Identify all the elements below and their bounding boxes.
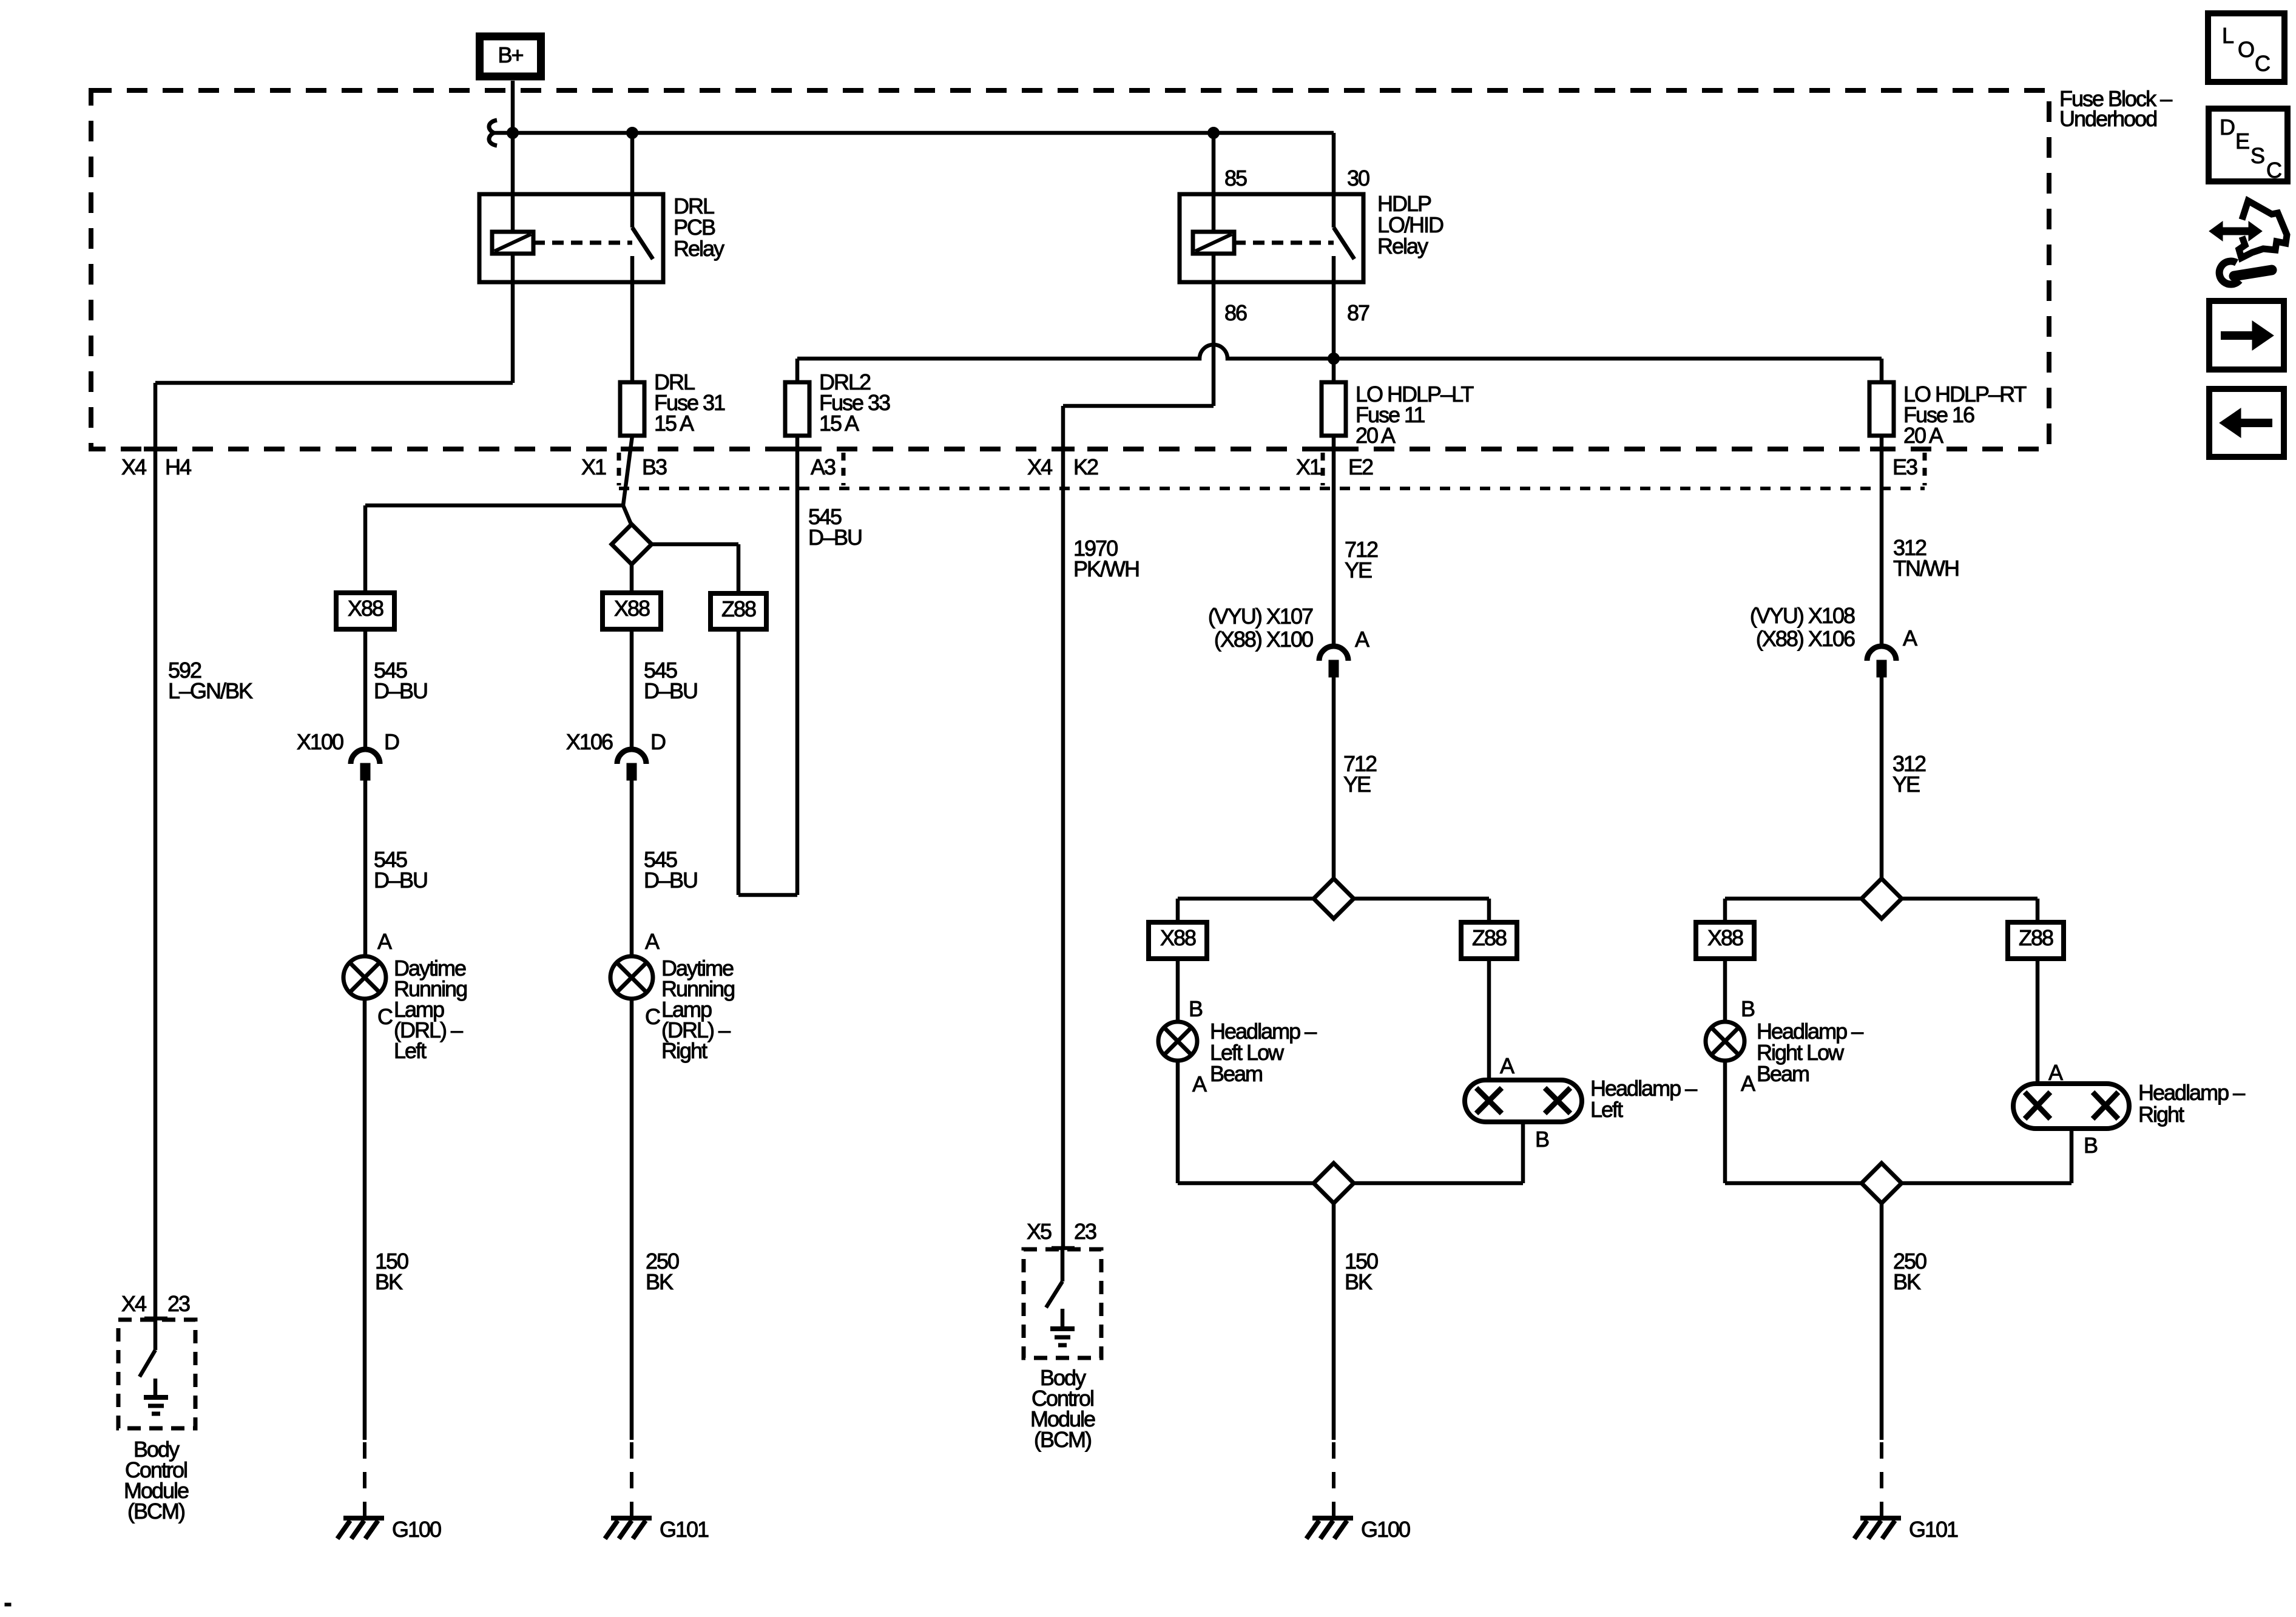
svg-text:C: C xyxy=(2255,51,2270,76)
svg-text:E3: E3 xyxy=(1893,454,1917,479)
svg-text:B3: B3 xyxy=(642,454,667,479)
svg-text:Z88: Z88 xyxy=(721,596,756,621)
svg-text:B+: B+ xyxy=(498,42,523,67)
svg-text:20 A: 20 A xyxy=(1903,423,1943,448)
svg-text:A: A xyxy=(1500,1053,1514,1078)
svg-text:YE: YE xyxy=(1345,558,1372,582)
svg-text:D–BU: D–BU xyxy=(374,868,427,893)
svg-text:B: B xyxy=(1741,996,1755,1021)
svg-text:X88: X88 xyxy=(1160,925,1196,950)
svg-text:D–BU: D–BU xyxy=(644,678,697,703)
svg-text:X4: X4 xyxy=(1027,454,1052,479)
svg-text:(BCM): (BCM) xyxy=(127,1499,184,1524)
svg-text:X88: X88 xyxy=(1707,925,1743,950)
svg-text:S: S xyxy=(2250,143,2264,168)
svg-text:87: 87 xyxy=(1347,300,1369,325)
svg-text:Z88: Z88 xyxy=(2019,925,2053,950)
svg-text:PK/WH: PK/WH xyxy=(1073,556,1139,581)
svg-text:B: B xyxy=(1535,1127,1549,1152)
svg-text:A: A xyxy=(1355,627,1369,652)
svg-text:Right: Right xyxy=(2138,1102,2184,1127)
svg-text:Relay: Relay xyxy=(674,236,724,261)
svg-text:Headlamp –: Headlamp – xyxy=(2138,1080,2245,1105)
svg-text:C: C xyxy=(2266,158,2281,183)
svg-text:E2: E2 xyxy=(1348,454,1373,479)
svg-text:(VYU) X107: (VYU) X107 xyxy=(1208,604,1313,629)
svg-text:(X88) X106: (X88) X106 xyxy=(1756,626,1855,651)
svg-text:Left: Left xyxy=(1590,1097,1623,1122)
svg-text:D: D xyxy=(384,729,399,754)
svg-text:X1: X1 xyxy=(581,454,606,479)
svg-text:L: L xyxy=(2222,23,2234,48)
svg-text:YE: YE xyxy=(1893,772,1920,797)
svg-text:C: C xyxy=(377,1004,393,1029)
svg-text:(VYU) X108: (VYU) X108 xyxy=(1750,603,1855,628)
svg-text:Z88: Z88 xyxy=(1472,925,1507,950)
svg-text:D–BU: D–BU xyxy=(808,525,862,550)
svg-text:O: O xyxy=(2238,37,2254,62)
svg-text:BK: BK xyxy=(375,1269,403,1294)
svg-text:Right: Right xyxy=(661,1038,707,1063)
svg-text:D: D xyxy=(2220,115,2235,140)
svg-text:A: A xyxy=(377,929,392,954)
svg-text:G100: G100 xyxy=(392,1517,441,1542)
svg-text:E: E xyxy=(2235,129,2249,154)
svg-text:(BCM): (BCM) xyxy=(1034,1427,1091,1452)
svg-text:A3: A3 xyxy=(811,454,836,479)
svg-text:Relay: Relay xyxy=(1377,234,1428,258)
svg-text:YE: YE xyxy=(1343,772,1371,797)
svg-text:X88: X88 xyxy=(614,596,650,621)
svg-text:(X88) X100: (X88) X100 xyxy=(1214,627,1313,652)
svg-text:G101: G101 xyxy=(1909,1517,1958,1542)
svg-text:B: B xyxy=(1189,996,1203,1021)
svg-text:30: 30 xyxy=(1347,166,1369,191)
svg-text:K2: K2 xyxy=(1073,454,1098,479)
svg-text:X5: X5 xyxy=(1027,1219,1052,1244)
svg-text:L–GN/BK: L–GN/BK xyxy=(168,678,253,703)
svg-text:23: 23 xyxy=(167,1291,190,1316)
svg-text:G100: G100 xyxy=(1361,1517,1410,1542)
svg-text:X88: X88 xyxy=(348,596,383,621)
svg-text:BK: BK xyxy=(646,1269,674,1294)
svg-text:BK: BK xyxy=(1345,1269,1373,1294)
svg-text:B: B xyxy=(2084,1133,2098,1158)
svg-text:BK: BK xyxy=(1893,1269,1921,1294)
svg-text:23: 23 xyxy=(1074,1219,1096,1244)
svg-text:A: A xyxy=(1741,1071,1755,1096)
svg-text:X106: X106 xyxy=(566,729,613,754)
svg-text:TN/WH: TN/WH xyxy=(1893,556,1959,581)
svg-text:Beam: Beam xyxy=(1757,1061,1809,1086)
svg-text:D: D xyxy=(650,729,666,754)
svg-text:Left: Left xyxy=(394,1038,427,1063)
svg-text:15 A: 15 A xyxy=(654,411,694,436)
svg-text:C: C xyxy=(645,1004,660,1029)
svg-text:85: 85 xyxy=(1224,166,1247,191)
svg-text:Beam: Beam xyxy=(1210,1061,1262,1086)
svg-text:A: A xyxy=(2048,1060,2063,1085)
svg-text:D–BU: D–BU xyxy=(374,678,427,703)
svg-text:X100: X100 xyxy=(297,729,343,754)
svg-text:X4: X4 xyxy=(121,1291,146,1316)
svg-text:X4: X4 xyxy=(121,454,146,479)
svg-text:86: 86 xyxy=(1224,300,1247,325)
svg-text:A: A xyxy=(1903,626,1917,650)
svg-text:A: A xyxy=(1192,1072,1207,1096)
svg-text:15 A: 15 A xyxy=(819,411,859,436)
svg-text:Underhood: Underhood xyxy=(2059,106,2156,131)
svg-text:D–BU: D–BU xyxy=(644,868,697,893)
svg-text:G101: G101 xyxy=(660,1517,709,1542)
svg-text:X1: X1 xyxy=(1296,454,1321,479)
svg-text:A: A xyxy=(645,929,660,954)
svg-text:20 A: 20 A xyxy=(1356,423,1396,448)
svg-text:H4: H4 xyxy=(165,454,191,479)
